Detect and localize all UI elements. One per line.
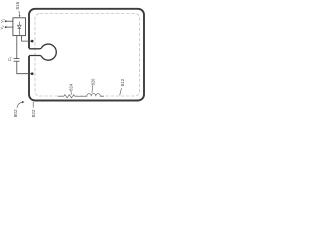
leader 816 — [18, 11, 21, 16]
input terminal V1 — [5, 20, 7, 22]
inductor L — [81, 94, 104, 97]
wire V1 to box — [6, 20, 13, 22]
wire capacitor to housing — [17, 61, 32, 73]
diode inside driver box — [18, 22, 22, 36]
leader 812 — [120, 88, 122, 95]
wire box output to housing — [22, 36, 32, 42]
svg-text:802: 802 — [13, 109, 18, 117]
leader 802 (curved arrow) — [17, 102, 23, 108]
port keyhole circle with stem — [29, 44, 56, 60]
svg-text:824: 824 — [68, 83, 73, 91]
loop 812 (inner dashed rounded rect) — [35, 14, 140, 97]
housing 822 (outer dark rounded rect with gap on left edge for port) — [29, 9, 144, 101]
junction dot upper — [31, 40, 34, 43]
svg-text:816: 816 — [15, 1, 20, 9]
resistor R — [58, 95, 81, 98]
driver box 816 — [13, 18, 26, 36]
svg-text:812: 812 — [120, 78, 125, 86]
svg-text:822: 822 — [31, 109, 36, 117]
capacitor C1 — [14, 58, 20, 60]
input terminal V2 — [5, 26, 7, 28]
leader 824 — [70, 91, 72, 95]
wire V2 to box — [6, 26, 13, 28]
leader 826 — [91, 86, 94, 93]
svg-text:826: 826 — [91, 78, 96, 86]
leader 822 — [32, 102, 34, 108]
junction dot lower — [31, 72, 34, 75]
wire box to capacitor — [16, 36, 18, 59]
